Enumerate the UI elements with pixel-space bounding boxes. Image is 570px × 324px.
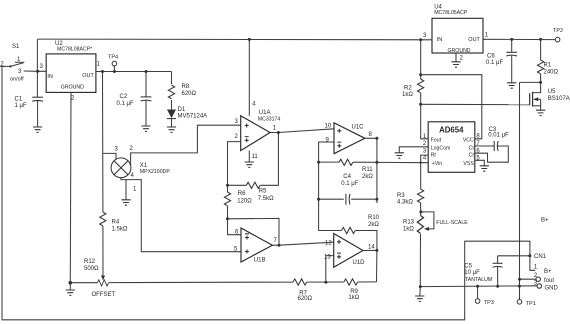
svg-text:Rt: Rt xyxy=(431,152,437,158)
svg-text:GROUND: GROUND xyxy=(61,84,84,90)
svg-text:1kΩ: 1kΩ xyxy=(348,295,359,301)
svg-text:FULL-SCALE: FULL-SCALE xyxy=(436,220,468,226)
svg-text:MV57124A: MV57124A xyxy=(178,113,208,119)
svg-text:500Ω: 500Ω xyxy=(84,266,99,272)
svg-text:TP3: TP3 xyxy=(484,300,494,306)
svg-text:OUT: OUT xyxy=(82,73,94,79)
svg-text:MC78L05ACP: MC78L05ACP xyxy=(434,10,468,16)
svg-text:1kΩ: 1kΩ xyxy=(402,92,413,98)
svg-text:MC78L08ACP*: MC78L08ACP* xyxy=(57,47,92,53)
svg-text:14: 14 xyxy=(368,244,375,250)
svg-text:U1C: U1C xyxy=(352,124,365,130)
svg-text:0.01 μF: 0.01 μF xyxy=(488,133,509,139)
svg-text:R12: R12 xyxy=(84,259,96,265)
svg-text:B+: B+ xyxy=(541,218,549,224)
svg-text:12: 12 xyxy=(325,241,332,247)
svg-text:10 μF: 10 μF xyxy=(464,270,480,276)
svg-text:R5: R5 xyxy=(259,188,267,194)
svg-text:U1A: U1A xyxy=(259,110,271,116)
svg-text:11: 11 xyxy=(252,154,259,160)
svg-text:U1D: U1D xyxy=(353,260,366,266)
svg-text:S1: S1 xyxy=(12,44,20,50)
svg-text:Fout: Fout xyxy=(431,138,442,144)
svg-text:R8: R8 xyxy=(182,84,190,90)
svg-text:240Ω: 240Ω xyxy=(544,69,559,75)
svg-text:MPX2100DP: MPX2100DP xyxy=(140,169,171,175)
svg-text:620Ω: 620Ω xyxy=(182,91,197,97)
svg-text:BS107A: BS107A xyxy=(548,96,570,102)
svg-text:AD654: AD654 xyxy=(439,125,464,134)
svg-text:+Vin: +Vin xyxy=(432,161,443,167)
svg-text:R2: R2 xyxy=(404,85,412,91)
svg-text:D1: D1 xyxy=(178,107,186,113)
svg-text:13: 13 xyxy=(324,254,331,260)
svg-text:R4: R4 xyxy=(112,220,120,226)
svg-text:CN1: CN1 xyxy=(534,254,547,260)
svg-text:0.1 μF: 0.1 μF xyxy=(341,181,358,187)
svg-text:Ct: Ct xyxy=(469,145,475,151)
svg-text:LogCom: LogCom xyxy=(431,145,451,151)
svg-text:VSS: VSS xyxy=(463,161,474,167)
svg-text:TP1: TP1 xyxy=(526,301,536,307)
svg-text:GROUND: GROUND xyxy=(448,48,471,54)
svg-text:IN: IN xyxy=(437,37,443,43)
svg-text:MC33174: MC33174 xyxy=(258,116,281,122)
svg-text:TP4: TP4 xyxy=(108,55,118,61)
svg-text:U1B: U1B xyxy=(254,257,266,263)
svg-text:IN: IN xyxy=(47,74,53,80)
svg-text:U5: U5 xyxy=(548,89,556,95)
svg-text:1.5kΩ: 1.5kΩ xyxy=(112,226,128,232)
svg-text:R11: R11 xyxy=(362,167,373,173)
svg-text:0.1 μF: 0.1 μF xyxy=(117,101,134,107)
svg-text:120Ω: 120Ω xyxy=(237,199,252,205)
svg-text:10: 10 xyxy=(325,124,332,130)
svg-text:1 μF: 1 μF xyxy=(15,103,27,109)
svg-text:B+: B+ xyxy=(544,269,552,275)
svg-text:OFFSET: OFFSET xyxy=(92,292,116,298)
svg-text:0.1 μF: 0.1 μF xyxy=(486,60,503,66)
svg-text:R3: R3 xyxy=(397,193,405,199)
svg-text:2kΩ: 2kΩ xyxy=(362,174,373,180)
svg-text:TANTALUM: TANTALUM xyxy=(465,277,492,283)
svg-text:620Ω: 620Ω xyxy=(298,296,313,302)
svg-text:7.5kΩ: 7.5kΩ xyxy=(258,196,274,202)
svg-text:Ct: Ct xyxy=(469,152,475,158)
svg-text:TP2: TP2 xyxy=(553,28,563,34)
svg-text:on/off: on/off xyxy=(10,77,24,83)
svg-text:R10: R10 xyxy=(368,215,380,221)
svg-text:R1: R1 xyxy=(544,62,552,68)
svg-text:C6: C6 xyxy=(487,54,495,60)
svg-text:C1: C1 xyxy=(15,97,23,103)
svg-text:OUT: OUT xyxy=(468,37,480,43)
svg-text:C4: C4 xyxy=(343,174,351,180)
svg-text:C2: C2 xyxy=(120,94,128,100)
svg-text:C5: C5 xyxy=(464,263,472,269)
svg-text:2kΩ: 2kΩ xyxy=(368,222,379,228)
svg-text:fout: fout xyxy=(544,278,554,284)
svg-text:4.3kΩ: 4.3kΩ xyxy=(397,199,413,205)
svg-text:1kΩ: 1kΩ xyxy=(403,226,414,232)
svg-text:R13: R13 xyxy=(403,219,415,225)
svg-text:VCC: VCC xyxy=(463,138,474,144)
svg-text:GND: GND xyxy=(545,286,559,292)
svg-text:R6: R6 xyxy=(238,191,246,197)
